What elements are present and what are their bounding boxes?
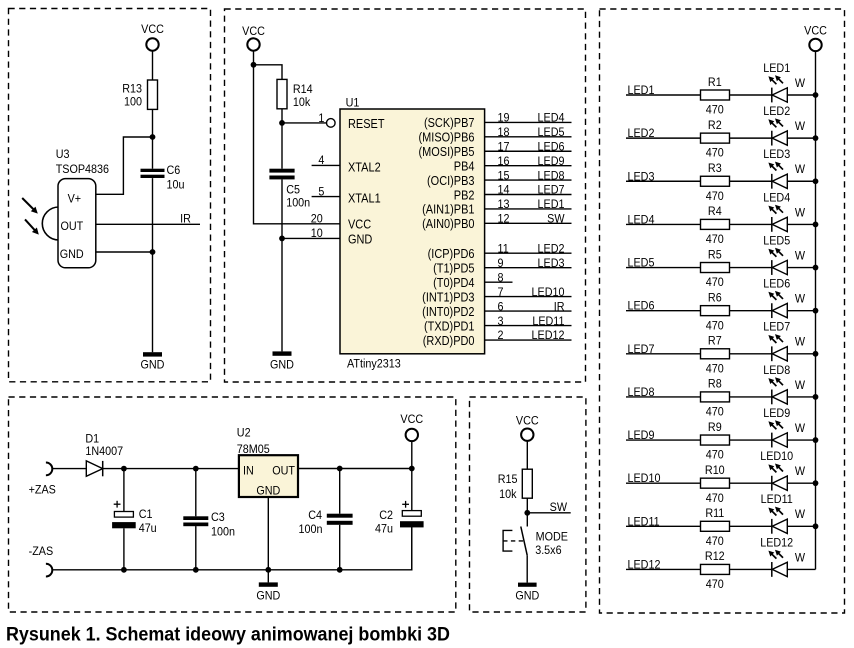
svg-text:C6: C6 <box>167 163 181 177</box>
pin 20 VCC label <box>311 212 372 232</box>
svg-text:LED4: LED4 <box>763 191 790 205</box>
pin 18 (MISO)PB6 / net LED5 <box>419 125 572 144</box>
wire VCC rail <box>815 51 817 569</box>
LED LED11 W <box>761 493 805 534</box>
svg-text:LED3: LED3 <box>763 147 790 161</box>
LED LED7 W <box>763 320 805 361</box>
node rail C1 <box>121 567 127 573</box>
svg-text:MODE: MODE <box>536 530 569 544</box>
svg-text:SW: SW <box>547 212 564 226</box>
net LED5 wire <box>626 256 701 270</box>
wire C3 leads <box>195 469 197 517</box>
wire LED3 to VCC rail <box>787 180 815 182</box>
pin 7 (INT1)PD3 / net LED10 <box>422 285 571 304</box>
svg-text:100: 100 <box>124 95 142 109</box>
svg-text:LED2: LED2 <box>538 242 565 256</box>
pin 3 (TXD)PD1 / net LED11 <box>424 314 572 333</box>
node C3 top junction <box>193 466 199 472</box>
pin 10 GND label <box>311 226 373 246</box>
svg-text:10k: 10k <box>293 95 311 109</box>
svg-text:SW: SW <box>550 500 567 514</box>
svg-text:13: 13 <box>498 197 510 211</box>
svg-text:GND: GND <box>348 232 372 247</box>
svg-text:19: 19 <box>498 111 510 125</box>
wire R14 to reset node <box>281 109 283 169</box>
wire C5 to GND pin <box>281 179 283 238</box>
wire R4 to LED4 <box>730 223 772 225</box>
svg-text:LED7: LED7 <box>763 320 790 334</box>
frame: mode switch module <box>470 397 586 612</box>
svg-text:LED2: LED2 <box>763 104 790 118</box>
net LED2 wire <box>626 126 701 140</box>
svg-text:11: 11 <box>498 242 509 256</box>
net LED8 wire <box>626 385 701 399</box>
svg-text:W: W <box>795 206 805 220</box>
resistor R6 470 <box>701 291 730 333</box>
wire R15 to SW node <box>526 498 528 513</box>
power VCC (switch module) <box>516 414 539 441</box>
svg-text:R10: R10 <box>705 463 725 477</box>
pin 19 (SCK)PB7 / net LED4 <box>424 111 572 130</box>
wire OUT pin / net IR <box>96 212 200 226</box>
op IC U1 ATtiny2313 body <box>340 96 485 371</box>
switch MODE 3.5x6 <box>503 527 568 558</box>
net LED6 wire <box>626 299 701 313</box>
ground (MCU module) <box>270 351 294 371</box>
svg-text:LED1: LED1 <box>763 61 790 75</box>
svg-text:1: 1 <box>318 111 324 125</box>
resistor R3 470 <box>701 161 730 203</box>
svg-text:12: 12 <box>498 212 510 226</box>
svg-text:LED6: LED6 <box>628 299 655 313</box>
svg-text:R2: R2 <box>708 118 722 132</box>
wire down to ground <box>281 238 283 351</box>
net LED3 wire <box>626 170 701 184</box>
svg-text:W: W <box>795 464 805 478</box>
wire R12 to LED12 <box>730 568 772 570</box>
wire R5 to LED5 <box>730 267 772 269</box>
svg-text:W: W <box>795 162 805 176</box>
capacitor C6 10u <box>141 163 185 191</box>
resistor R8 470 <box>701 377 730 419</box>
pin 9 (T1)PD5 / net LED3 <box>433 256 571 275</box>
svg-text:GND: GND <box>270 358 294 372</box>
node rail junction 1 <box>813 92 819 98</box>
frame: LED array module <box>600 9 845 613</box>
node VCC/C6 junction <box>150 134 156 140</box>
svg-text:LED10: LED10 <box>628 472 661 486</box>
resistor R10 470 <box>701 463 730 505</box>
svg-text:VCC: VCC <box>804 24 827 38</box>
wire R6 to LED6 <box>730 310 772 312</box>
svg-text:LED12: LED12 <box>532 329 565 343</box>
svg-text:LED9: LED9 <box>763 406 790 420</box>
svg-text:C5: C5 <box>286 183 300 197</box>
svg-text:LED9: LED9 <box>538 154 565 168</box>
svg-text:LED7: LED7 <box>628 342 655 356</box>
svg-text:U2: U2 <box>237 426 251 440</box>
svg-text:100n: 100n <box>299 522 323 536</box>
svg-text:R5: R5 <box>708 248 722 262</box>
ground (supply) <box>256 582 280 602</box>
svg-text:5: 5 <box>318 185 324 199</box>
svg-text:TSOP4836: TSOP4836 <box>56 163 109 177</box>
svg-text:LED11: LED11 <box>761 493 793 507</box>
svg-text:LED9: LED9 <box>628 428 655 442</box>
diode D1 1N4007 <box>85 432 123 477</box>
svg-text:LED12: LED12 <box>628 558 661 572</box>
svg-text:(ICP)PD6: (ICP)PD6 <box>428 246 475 261</box>
LED LED1 W <box>763 61 805 102</box>
net LED7 wire <box>626 342 701 356</box>
wire SW node to switch <box>526 513 528 527</box>
svg-text:R1: R1 <box>708 75 722 89</box>
resistor R12 470 <box>701 550 730 592</box>
svg-text:LED11: LED11 <box>532 314 564 328</box>
IR light arrow 1 <box>22 198 35 211</box>
wire LED9 to VCC rail <box>787 439 815 441</box>
svg-text:10k: 10k <box>499 488 517 502</box>
svg-text:W: W <box>795 249 805 263</box>
LED LED12 W <box>760 536 805 577</box>
svg-text:(INT0)PD2: (INT0)PD2 <box>422 304 474 319</box>
svg-text:15: 15 <box>498 169 510 183</box>
node rail C3 <box>193 567 199 573</box>
node rail junction 2 <box>813 135 819 141</box>
svg-text:470: 470 <box>706 405 724 419</box>
svg-text:XTAL1: XTAL1 <box>348 191 381 206</box>
svg-text:R11: R11 <box>705 506 724 520</box>
node rail junction 9 <box>813 437 819 443</box>
pin 11 (ICP)PD6 / net LED2 <box>428 242 572 261</box>
svg-text:R14: R14 <box>293 82 313 96</box>
LED LED6 W <box>763 277 805 318</box>
svg-text:C1: C1 <box>139 508 153 522</box>
svg-text:LED4: LED4 <box>628 213 655 227</box>
node rail junction 5 <box>813 265 819 271</box>
svg-text:PB4: PB4 <box>454 159 475 174</box>
wire bottom GND rail <box>52 527 412 570</box>
wire switch to ground <box>526 555 528 582</box>
wire C4 leads <box>339 469 341 514</box>
svg-text:VCC: VCC <box>141 22 164 36</box>
svg-text:1N4007: 1N4007 <box>85 444 123 458</box>
svg-text:LED12: LED12 <box>760 536 793 550</box>
svg-text:100n: 100n <box>211 525 235 539</box>
svg-text:GND: GND <box>256 589 280 603</box>
svg-text:V+: V+ <box>68 192 82 206</box>
svg-text:LED8: LED8 <box>763 363 790 377</box>
node rail junction 10 <box>813 480 819 486</box>
wire LED12 to VCC rail <box>787 568 815 570</box>
svg-text:R8: R8 <box>708 377 722 391</box>
svg-text:(T1)PD5: (T1)PD5 <box>433 261 475 276</box>
node rail junction 8 <box>813 394 819 400</box>
svg-text:(INT1)PD3: (INT1)PD3 <box>422 290 475 305</box>
svg-text:(SCK)PB7: (SCK)PB7 <box>424 115 475 130</box>
svg-text:GND: GND <box>141 358 165 372</box>
wire R3 to LED3 <box>730 180 772 182</box>
svg-text:R7: R7 <box>708 334 722 348</box>
frame: IR receiver module <box>9 9 211 382</box>
pin 4 XTAL2 stub <box>312 154 381 175</box>
svg-text:W: W <box>795 508 805 522</box>
resistor R15 10k <box>498 469 533 501</box>
svg-text:R13: R13 <box>122 82 142 96</box>
svg-text:(MOSI)PB5: (MOSI)PB5 <box>419 144 475 159</box>
regulator U2 78M05 <box>237 426 298 498</box>
svg-text:LED6: LED6 <box>763 277 790 291</box>
frame: power supply module <box>9 397 456 612</box>
svg-text:470: 470 <box>706 534 724 548</box>
LED LED5 W <box>763 234 805 275</box>
svg-text:20: 20 <box>311 212 323 226</box>
resistor R13 100 <box>122 80 157 109</box>
svg-text:W: W <box>795 335 805 349</box>
resistor R7 470 <box>701 334 730 376</box>
wire C6 to GND <box>152 178 154 352</box>
pin 14 PB2 / net LED7 <box>454 183 572 202</box>
node VCC branch <box>251 62 257 68</box>
wire R8 to LED8 <box>730 396 772 398</box>
svg-text:3.5x6: 3.5x6 <box>535 544 561 558</box>
resistor R14 10k <box>277 79 313 109</box>
power VCC (supply output) <box>400 412 423 468</box>
svg-text:VCC: VCC <box>516 414 539 428</box>
wire R7 to LED7 <box>730 353 772 355</box>
pin 6 (INT0)PD2 / net IR <box>422 300 571 319</box>
svg-text:R4: R4 <box>708 205 722 219</box>
svg-text:LED7: LED7 <box>538 183 565 197</box>
capacitor C5 100n <box>269 169 310 210</box>
wire R10 to LED10 <box>730 482 772 484</box>
pin 12 (AIN0)PB0 / net SW <box>422 212 571 231</box>
svg-text:LED5: LED5 <box>763 234 790 248</box>
net LED12 wire <box>626 558 701 572</box>
pin 16 PB4 / net LED9 <box>454 154 572 173</box>
LED LED4 W <box>763 191 805 232</box>
svg-text:(AIN0)PB0: (AIN0)PB0 <box>422 216 475 231</box>
wire LED10 to VCC rail <box>787 482 815 484</box>
svg-text:ATtiny2313: ATtiny2313 <box>347 357 401 371</box>
svg-text:W: W <box>795 421 805 435</box>
svg-text:6: 6 <box>498 300 504 314</box>
svg-text:VCC: VCC <box>400 412 423 426</box>
svg-text:7: 7 <box>498 285 504 299</box>
svg-text:78M05: 78M05 <box>237 442 270 456</box>
svg-text:RESET: RESET <box>348 116 385 131</box>
wire LED11 to VCC rail <box>787 525 815 527</box>
svg-text:C3: C3 <box>211 511 225 525</box>
svg-text:470: 470 <box>706 189 724 203</box>
resistor R9 470 <box>701 420 730 462</box>
svg-text:OUT: OUT <box>272 464 295 478</box>
ground (switch module) <box>515 583 539 603</box>
svg-text:IR: IR <box>554 300 565 314</box>
svg-text:W: W <box>795 292 805 306</box>
node rail C4 <box>337 567 343 573</box>
svg-text:VCC: VCC <box>242 25 265 39</box>
frame: MCU module <box>225 9 586 382</box>
wire C2 leads <box>411 469 413 511</box>
svg-text:(AIN1)PB1: (AIN1)PB1 <box>422 202 474 217</box>
node rail junction 6 <box>813 308 819 314</box>
svg-text:LED5: LED5 <box>538 125 565 139</box>
node VCC/C2 junction <box>409 466 415 472</box>
wire LED2 to VCC rail <box>787 137 815 139</box>
wire U2 OUT to VCC <box>298 468 412 470</box>
resistor R11 470 <box>701 506 730 548</box>
capacitor C1 47u <box>112 501 157 535</box>
LED LED9 W <box>763 406 805 447</box>
IR light arrow 2 <box>25 219 36 231</box>
net LED9 wire <box>626 428 701 442</box>
wire D1 to U2 IN <box>103 468 239 470</box>
wire GND pin 10 <box>282 237 341 239</box>
svg-text:470: 470 <box>706 146 724 160</box>
svg-text:470: 470 <box>706 319 724 333</box>
svg-text:GND: GND <box>256 484 280 498</box>
wire R1 to LED1 <box>730 94 772 96</box>
svg-text:W: W <box>795 119 805 133</box>
svg-text:LED6: LED6 <box>538 140 565 154</box>
LED LED8 W <box>763 363 805 404</box>
wire C1 leads <box>123 469 125 512</box>
wire R2 to LED2 <box>730 137 772 139</box>
svg-text:LED1: LED1 <box>628 83 655 97</box>
resistor R4 470 <box>701 205 730 247</box>
pin 2 (RXD)PD0 / net LED12 <box>423 329 572 348</box>
node rail junction 7 <box>813 351 819 357</box>
svg-text:LED10: LED10 <box>532 285 565 299</box>
pin 15 (OCI)PB3 / net LED8 <box>427 169 571 188</box>
svg-text:+ZAS: +ZAS <box>29 483 56 497</box>
net SW wire <box>527 500 570 514</box>
net LED10 wire <box>626 472 701 486</box>
svg-text:8: 8 <box>498 271 504 285</box>
svg-text:(TXD)PD1: (TXD)PD1 <box>424 319 475 334</box>
svg-text:18: 18 <box>498 125 510 139</box>
svg-text:LED10: LED10 <box>760 449 793 463</box>
node GND junction (MCU) <box>279 236 285 242</box>
node rail junction 4 <box>813 221 819 227</box>
wire R9 to LED9 <box>730 439 772 441</box>
svg-text:LED3: LED3 <box>538 256 565 270</box>
resistor R5 470 <box>701 248 730 290</box>
wire LED5 to VCC rail <box>787 267 815 269</box>
net LED11 wire <box>626 515 701 529</box>
node GND junction <box>150 249 156 255</box>
pin 1 RESET bubble <box>318 111 335 127</box>
svg-text:R9: R9 <box>708 420 722 434</box>
power VCC (LED array) <box>804 24 827 51</box>
svg-text:(RXD)PD0: (RXD)PD0 <box>423 333 475 348</box>
svg-text:(OCI)PB3: (OCI)PB3 <box>427 173 475 188</box>
capacitor C3 100n <box>183 511 235 539</box>
svg-text:W: W <box>795 76 805 90</box>
svg-text:IR: IR <box>180 212 191 226</box>
wire VCC to R13 <box>152 51 154 80</box>
wire +ZAS to D1 <box>52 468 86 470</box>
svg-text:10u: 10u <box>167 178 185 192</box>
node C1 top junction <box>121 466 127 472</box>
svg-text:4: 4 <box>318 154 324 168</box>
wire LED8 to VCC rail <box>787 396 815 398</box>
pin 5 XTAL1 stub <box>312 185 381 206</box>
node SW junction <box>524 510 530 516</box>
net LED1 wire <box>626 83 701 97</box>
svg-text:47u: 47u <box>139 521 157 535</box>
svg-text:470: 470 <box>706 103 724 117</box>
wire R11 to LED11 <box>730 525 772 527</box>
svg-text:OUT: OUT <box>61 219 84 233</box>
svg-text:R6: R6 <box>708 291 722 305</box>
svg-text:470: 470 <box>706 448 724 462</box>
resistor R2 470 <box>701 118 730 160</box>
svg-text:470: 470 <box>706 491 724 505</box>
svg-text:GND: GND <box>515 589 539 603</box>
power VCC (IR module) <box>141 22 164 50</box>
wire VCC down to pin 20 <box>254 51 341 224</box>
svg-text:470: 470 <box>706 232 724 246</box>
svg-text:LED5: LED5 <box>628 256 655 270</box>
svg-text:R15: R15 <box>498 472 518 486</box>
wire V+ pin to VCC node <box>96 137 153 194</box>
svg-text:(T0)PD4: (T0)PD4 <box>433 275 475 290</box>
wire U2 GND pin to ground <box>267 497 269 582</box>
connector +ZAS <box>29 463 56 497</box>
node rail junction 3 <box>813 178 819 184</box>
svg-text:100n: 100n <box>286 196 310 210</box>
wire reset node to RESET pin <box>282 122 326 124</box>
svg-text:VCC: VCC <box>348 217 372 232</box>
svg-text:470: 470 <box>706 577 724 591</box>
ground (IR module) <box>141 352 165 371</box>
capacitor C2 47u <box>375 501 424 536</box>
wire GND pin <box>96 251 153 253</box>
wire LED6 to VCC rail <box>787 310 815 312</box>
LED LED10 W <box>760 449 805 490</box>
power VCC (MCU module) <box>242 25 265 51</box>
svg-text:10: 10 <box>311 226 323 240</box>
svg-text:LED11: LED11 <box>628 515 660 529</box>
svg-text:LED8: LED8 <box>538 169 565 183</box>
connector -ZAS <box>29 544 54 576</box>
LED LED2 W <box>763 104 805 145</box>
node C4 top junction <box>337 466 343 472</box>
svg-text:R12: R12 <box>705 550 725 564</box>
wire LED1 to VCC rail <box>787 94 815 96</box>
svg-text:GND: GND <box>60 247 84 261</box>
svg-text:9: 9 <box>498 256 504 270</box>
pin 17 (MOSI)PB5 / net LED6 <box>419 140 572 159</box>
svg-text:LED4: LED4 <box>538 111 565 125</box>
svg-text:W: W <box>795 378 805 392</box>
node rail U2 GND <box>265 567 271 573</box>
wire LED4 to VCC rail <box>787 223 815 225</box>
svg-text:XTAL2: XTAL2 <box>348 160 381 175</box>
svg-text:C2: C2 <box>379 508 393 522</box>
wire R13 to VCC node <box>152 109 154 168</box>
svg-text:16: 16 <box>498 154 510 168</box>
net LED4 wire <box>626 213 701 227</box>
capacitor C4 100n <box>299 508 353 536</box>
svg-text:(MISO)PB6: (MISO)PB6 <box>419 130 475 145</box>
svg-text:-ZAS: -ZAS <box>29 544 54 558</box>
svg-text:LED8: LED8 <box>628 385 655 399</box>
svg-text:2: 2 <box>498 329 504 343</box>
IR receiver U3 TSOP4836 <box>42 148 109 268</box>
